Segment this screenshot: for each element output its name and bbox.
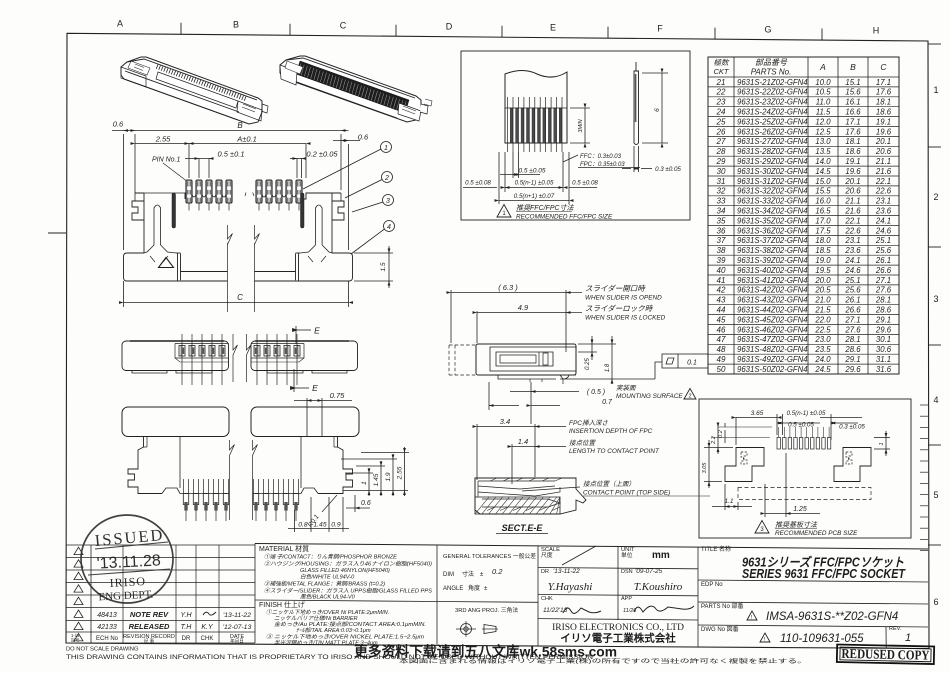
svg-text:'12-07-13: '12-07-13	[223, 624, 252, 631]
revision rows text	[71, 610, 251, 645]
svg-text:25: 25	[716, 117, 726, 126]
side view length dim	[642, 73, 668, 143]
svg-text:1.1: 1.1	[724, 498, 733, 505]
svg-text:110-109631-055: 110-109631-055	[780, 633, 864, 645]
svg-text:31.6: 31.6	[876, 365, 892, 374]
svg-text:15.6: 15.6	[845, 88, 861, 97]
svg-text:17.1: 17.1	[876, 78, 891, 87]
svg-text:29: 29	[716, 157, 726, 166]
flatness callout	[655, 354, 708, 379]
ffc cable drawing	[505, 71, 567, 144]
svg-text:20.6: 20.6	[844, 187, 861, 196]
svg-text:9631S-25Z02-GFN4: 9631S-25Z02-GFN4	[737, 117, 808, 126]
svg-text:17.0: 17.0	[815, 216, 831, 225]
svg-text:36: 36	[717, 226, 726, 235]
dim 0.6 left	[124, 129, 129, 132]
svg-text:28.6: 28.6	[844, 345, 861, 354]
svg-text:SERIES 9631 FFC/FPC SOCKET: SERIES 9631 FFC/FPC SOCKET	[742, 567, 906, 581]
svg-text:11.5: 11.5	[816, 108, 831, 117]
svg-text:'13.11.28: '13.11.28	[96, 552, 161, 572]
svg-text:推奨FFC/FPC寸法: 推奨FFC/FPC寸法	[516, 204, 575, 212]
svg-text:極数: 極数	[714, 58, 730, 67]
housing lower right half	[255, 437, 353, 494]
svg-text:4.9: 4.9	[518, 303, 529, 312]
svg-text:21.1: 21.1	[844, 197, 860, 206]
svg-text:18.5: 18.5	[815, 246, 831, 255]
svg-text:21: 21	[716, 78, 726, 87]
slider side view: body	[449, 344, 576, 384]
svg-text:24.5: 24.5	[814, 365, 831, 374]
svg-text:③ ニッケル下地めっき/OVER NICKEL PLATE:: ③ ニッケル下地めっき/OVER NICKEL PLATE:1.5~2.5μm	[266, 634, 424, 641]
dim 0.2	[712, 423, 770, 443]
svg-text:FINISH 仕上げ: FINISH 仕上げ	[259, 600, 305, 609]
svg-text:48413: 48413	[97, 612, 117, 619]
svg-text:21.6: 21.6	[844, 207, 861, 216]
svg-text:A±0.1: A±0.1	[236, 135, 257, 144]
dim 0.75 view3	[294, 398, 352, 436]
svg-text:( 6.3 ): ( 6.3 )	[498, 283, 518, 292]
svg-text:27: 27	[716, 137, 726, 146]
svg-text:CKT: CKT	[714, 67, 730, 76]
revision triangles	[74, 547, 83, 641]
svg-text:20.5: 20.5	[814, 286, 831, 295]
svg-text:4: 4	[387, 224, 391, 231]
svg-text:24.0: 24.0	[814, 355, 831, 364]
mounting surface note	[489, 382, 579, 424]
svg-text:PARTS No.: PARTS No.	[751, 68, 792, 77]
plan view strip left half	[122, 341, 229, 373]
svg-text:17.6: 17.6	[876, 88, 892, 97]
svg-text:13.0: 13.0	[815, 137, 831, 146]
svg-text:44: 44	[717, 306, 726, 315]
svg-text:9631S-47Z02-GFN4: 9631S-47Z02-GFN4	[737, 335, 808, 344]
svg-text:DR: DR	[182, 636, 191, 642]
svg-text:2.55: 2.55	[155, 135, 171, 144]
svg-text:21.5: 21.5	[814, 306, 831, 315]
svg-text:18.0: 18.0	[815, 236, 831, 245]
svg-text:1: 1	[933, 85, 938, 95]
svg-text:25.6: 25.6	[844, 286, 861, 295]
plan view pin leads left	[179, 334, 225, 385]
break marks view2	[233, 334, 238, 382]
svg-text:FPC：0.35±0.03: FPC：0.35±0.03	[580, 162, 625, 168]
svg-text:0.5(n+1) ±0.07: 0.5(n+1) ±0.07	[514, 193, 555, 200]
material section text	[259, 544, 432, 601]
svg-text:B: B	[233, 20, 239, 30]
svg-text:45: 45	[717, 315, 726, 324]
dim 3.4 insertion depth	[477, 424, 566, 480]
balloon 2	[345, 172, 393, 199]
svg-text:1: 1	[879, 442, 885, 445]
svg-text:41: 41	[717, 276, 726, 285]
svg-text:A: A	[819, 62, 826, 72]
contact point label	[522, 487, 580, 491]
hatched base of sect e-e	[475, 497, 560, 514]
svg-text:26.6: 26.6	[844, 306, 861, 315]
housing lower left half	[128, 437, 228, 494]
svg-text:2.2: 2.2	[711, 436, 717, 445]
svg-text:9631S-34Z02-GFN4: 9631S-34Z02-GFN4	[737, 207, 808, 216]
svg-text:1.45: 1.45	[373, 473, 380, 486]
revision table	[66, 545, 255, 643]
isometric connector view, top-left (top side)	[121, 57, 268, 124]
svg-text:16.1: 16.1	[845, 98, 860, 107]
svg-text:22.5: 22.5	[814, 325, 831, 334]
svg-text:角度: 角度	[468, 584, 480, 592]
dark contact band (right iso)	[296, 61, 409, 113]
svg-text:0.6: 0.6	[358, 133, 369, 142]
svg-text:1: 1	[361, 481, 368, 485]
svg-text:9631S-49Z02-GFN4: 9631S-49Z02-GFN4	[737, 355, 808, 364]
svg-text:21.0: 21.0	[814, 296, 831, 305]
svg-text:9631S-24Z02-GFN4: 9631S-24Z02-GFN4	[737, 108, 808, 117]
svg-text:MOUNTING SURFACE: MOUNTING SURFACE	[616, 393, 683, 400]
svg-text:22: 22	[716, 88, 726, 97]
svg-text:21.1: 21.1	[875, 157, 891, 166]
svg-text:20.0: 20.0	[814, 276, 831, 285]
svg-text:RELEASED: RELEASED	[129, 622, 170, 631]
break line left	[228, 225, 233, 312]
svg-text:9631S-31Z02-GFN4: 9631S-31Z02-GFN4	[737, 177, 808, 186]
dim row 0.5±0.08 left	[463, 152, 597, 192]
svg-text:42133: 42133	[97, 624, 117, 631]
svg-text:25.1: 25.1	[844, 276, 860, 285]
svg-text:ニッケルバリア仕様/Ni BARRIER: ニッケルバリア仕様/Ni BARRIER	[274, 615, 358, 622]
svg-text:31: 31	[717, 177, 726, 186]
svg-text:9631S-32Z02-GFN4: 9631S-32Z02-GFN4	[737, 187, 808, 196]
teeth along top far edge (left iso)	[156, 65, 246, 101]
svg-text:F: F	[657, 23, 663, 33]
svg-text:2: 2	[384, 175, 389, 182]
svg-text:2: 2	[933, 192, 938, 202]
svg-text:0.1: 0.1	[687, 360, 697, 367]
svg-text:19.1: 19.1	[876, 117, 891, 126]
svg-text:APP: APP	[621, 596, 632, 602]
svg-text:12.0: 12.0	[815, 117, 831, 126]
svg-text:FFC：0.3±0.03: FFC：0.3±0.03	[580, 154, 622, 160]
contact peg left	[144, 205, 176, 262]
R0.1 label	[322, 495, 337, 512]
svg-text:13.5: 13.5	[815, 147, 831, 156]
svg-text:20.1: 20.1	[875, 137, 891, 146]
svg-text:22.1: 22.1	[844, 216, 860, 225]
table rows	[716, 78, 892, 374]
svg-text:26: 26	[716, 127, 726, 136]
pins hanging left	[183, 479, 228, 521]
base left foot block	[124, 253, 228, 281]
svg-text:金めっき/Au PLATE:接点部/CONTACT AREA: 金めっき/Au PLATE:接点部/CONTACT AREA:0.1μmMIN.	[274, 621, 426, 628]
dim 0.6 view3	[346, 495, 370, 512]
svg-text:②ハウジング/HOUSING：ガラス入り46ナイロン樹脂(H: ②ハウジング/HOUSING：ガラス入り46ナイロン樹脂(HF5040)	[264, 561, 432, 568]
svg-text:26.6: 26.6	[875, 266, 892, 275]
svg-text:9631S-23Z02-GFN4: 9631S-23Z02-GFN4	[737, 98, 808, 107]
dim 2.55	[135, 144, 189, 179]
svg-text:NOTE REV: NOTE REV	[130, 610, 169, 619]
slider slot dark bar left	[172, 193, 176, 228]
svg-text:D: D	[446, 21, 453, 31]
fold mark left	[48, 232, 66, 234]
svg-text:REV.: REV.	[889, 626, 902, 632]
svg-text:29.6: 29.6	[875, 325, 892, 334]
svg-text:C: C	[237, 293, 243, 302]
svg-text:22.6: 22.6	[875, 187, 892, 196]
svg-text:CHK: CHK	[201, 636, 214, 642]
svg-text:1.4: 1.4	[518, 437, 528, 446]
svg-text:ANGLE: ANGLE	[443, 586, 463, 592]
svg-text:9631S-44Z02-GFN4: 9631S-44Z02-GFN4	[737, 306, 808, 315]
svg-text:35: 35	[717, 216, 726, 225]
contact pins row	[186, 180, 302, 211]
svg-text:49: 49	[717, 355, 726, 364]
svg-text:15.0: 15.0	[815, 177, 831, 186]
svg-text:23.0: 23.0	[814, 335, 831, 344]
svg-text:9631S-37Z02-GFN4: 9631S-37Z02-GFN4	[737, 236, 808, 245]
svg-text:18.6: 18.6	[876, 108, 892, 117]
svg-text:E: E	[314, 326, 320, 336]
svg-text:29.1: 29.1	[875, 315, 891, 324]
slider open/locked labels	[566, 292, 582, 294]
right border mini ruler	[920, 405, 928, 551]
svg-text:28.6: 28.6	[875, 306, 892, 315]
svg-text:GLASS FILLED 46NYLON(HF5040): GLASS FILLED 46NYLON(HF5040)	[300, 568, 390, 574]
dim 0.5±0.05 pitch	[500, 152, 540, 178]
svg-text:更多资料下载请到五八文库wk.58sms.com: 更多资料下载请到五八文库wk.58sms.com	[354, 644, 617, 660]
SECT E-E body	[475, 478, 586, 514]
title / parts / dwg	[701, 545, 911, 645]
dim 1 right	[874, 431, 890, 456]
svg-text:28.1: 28.1	[875, 296, 891, 305]
svg-text:DSN: DSN	[621, 569, 633, 575]
svg-text:1.5: 1.5	[380, 262, 387, 271]
svg-text:11.0: 11.0	[816, 98, 831, 107]
svg-text:G: G	[764, 24, 771, 34]
svg-text:24: 24	[716, 108, 726, 117]
balloon 4	[351, 221, 395, 255]
svg-text:47: 47	[717, 335, 726, 344]
svg-text:1.45: 1.45	[313, 522, 326, 529]
svg-text:PARTS No 部番: PARTS No 部番	[701, 602, 743, 610]
svg-text:9631S-28Z02-GFN4: 9631S-28Z02-GFN4	[737, 147, 808, 156]
svg-text:'13-11-22: '13-11-22	[553, 568, 580, 575]
recommended ffc size note	[497, 205, 511, 218]
svg-text:LENGTH TO CONTACT POINT: LENGTH TO CONTACT POINT	[569, 448, 660, 455]
svg-text:20.1: 20.1	[844, 177, 860, 186]
slider slot dark bar right	[301, 193, 305, 228]
ffc conductors hatched	[505, 97, 567, 152]
svg-text:黒色/BLACK UL94-V0: 黒色/BLACK UL94-V0	[300, 594, 356, 601]
dim 0.5±0.1	[185, 159, 213, 179]
svg-text:23.1: 23.1	[875, 197, 891, 206]
finish section text	[259, 600, 426, 647]
svg-text:3MIN: 3MIN	[578, 119, 584, 132]
svg-text:9631S-27Z02-GFN4: 9631S-27Z02-GFN4	[737, 137, 808, 146]
svg-text:6: 6	[933, 597, 938, 607]
svg-text:'13-11-22: '13-11-22	[223, 612, 251, 619]
svg-text:GENERAL TOLERANCES 一般公差: GENERAL TOLERANCES 一般公差	[443, 552, 536, 560]
svg-text:16.0: 16.0	[815, 197, 831, 206]
vertical dims left 3.05/2.2	[704, 425, 772, 488]
svg-text:27.6: 27.6	[875, 286, 892, 295]
svg-text:22.1: 22.1	[875, 177, 891, 186]
dim 0.5(n+1)±0.07	[499, 152, 569, 204]
dim 0.6 right	[333, 140, 360, 142]
housing top edge left	[184, 193, 186, 199]
svg-text:DR: DR	[541, 569, 549, 575]
svg-text:22.6: 22.6	[844, 226, 861, 235]
svg-text:K.Y: K.Y	[201, 624, 214, 631]
ISSUED stamp circle	[81, 515, 173, 603]
svg-text:C: C	[880, 62, 887, 72]
svg-text:9631S-38Z02-GFN4: 9631S-38Z02-GFN4	[737, 246, 808, 255]
parts table	[708, 57, 899, 374]
svg-text:0.6: 0.6	[361, 500, 371, 507]
svg-text:0.3 ±0.05: 0.3 ±0.05	[839, 424, 865, 431]
ffc side view thin bar	[634, 62, 639, 145]
dim 1.1	[712, 484, 752, 510]
svg-text:B: B	[237, 121, 243, 130]
svg-text:TITLE 名称: TITLE 名称	[701, 545, 731, 553]
svg-text:E: E	[312, 383, 318, 393]
svg-text:33: 33	[717, 197, 726, 206]
frame column ticks	[181, 23, 941, 545]
svg-text:28: 28	[716, 147, 726, 156]
svg-text:32: 32	[717, 187, 726, 196]
svg-text:E: E	[550, 22, 556, 32]
title block structure lines	[255, 544, 928, 649]
dim A±0.1	[189, 144, 306, 179]
MIN dim	[570, 108, 590, 143]
svg-text:REDUSED COPY: REDUSED COPY	[841, 646, 929, 663]
svg-text:0.5 ±0.08: 0.5 ±0.08	[465, 180, 491, 187]
svg-text:9631S-22Z02-GFN4: 9631S-22Z02-GFN4	[737, 88, 808, 97]
svg-text:30: 30	[717, 167, 726, 176]
svg-text:9631S-43Z02-GFN4: 9631S-43Z02-GFN4	[737, 296, 808, 305]
svg-text:3.65: 3.65	[751, 410, 764, 417]
svg-text:34: 34	[717, 207, 726, 216]
ffc/fpc recommendation box	[461, 51, 690, 220]
svg-text:24.1: 24.1	[875, 216, 891, 225]
svg-text:19.1: 19.1	[845, 157, 860, 166]
third angle projection symbol	[456, 621, 498, 637]
svg-text:2.55: 2.55	[397, 466, 404, 480]
svg-text:4: 4	[933, 395, 938, 405]
dims (6.3) and 4.9	[451, 290, 566, 352]
svg-text:19.6: 19.6	[876, 127, 892, 136]
svg-text:25.6: 25.6	[875, 246, 892, 255]
svg-text:23.1: 23.1	[844, 236, 860, 245]
svg-text:RECOMMENDED PCB SIZE: RECOMMENDED PCB SIZE	[775, 530, 858, 537]
dims right side view3	[341, 447, 409, 496]
general tolerances box	[443, 552, 536, 614]
svg-text:17.1: 17.1	[845, 117, 860, 126]
svg-text:H: H	[873, 25, 880, 35]
svg-text:記 事: 記 事	[144, 638, 155, 645]
svg-text:24.6: 24.6	[875, 226, 892, 235]
frame column letters	[117, 19, 939, 608]
svg-text:白色/WHITE UL94V-0: 白色/WHITE UL94V-0	[300, 574, 355, 581]
svg-text:1.25: 1.25	[793, 506, 807, 513]
svg-text:T.Koushiro: T.Koushiro	[634, 581, 683, 593]
left land pattern	[725, 448, 764, 482]
base right foot block	[255, 253, 353, 281]
svg-text:0.25: 0.25	[585, 358, 591, 370]
right land pattern	[834, 448, 871, 482]
svg-text:30.6: 30.6	[876, 345, 892, 354]
svg-text:17.5: 17.5	[815, 226, 831, 235]
svg-text:27.1: 27.1	[875, 276, 891, 285]
svg-text:43: 43	[717, 296, 726, 305]
svg-text:21.6: 21.6	[875, 167, 892, 176]
svg-text:1: 1	[384, 145, 388, 152]
pcb pads row	[777, 427, 831, 449]
svg-text:1.8: 1.8	[605, 363, 611, 372]
svg-text:9631S-42Z02-GFN4: 9631S-42Z02-GFN4	[737, 286, 808, 295]
svg-text:9631S-30Z02-GFN4: 9631S-30Z02-GFN4	[737, 167, 808, 176]
dim 1.5 right	[354, 246, 393, 288]
svg-text:接点位置: 接点位置	[569, 439, 597, 447]
svg-text:0.2: 0.2	[492, 567, 503, 576]
svg-text:RECOMMENDED FFC/FPC SIZE: RECOMMENDED FFC/FPC SIZE	[516, 214, 613, 221]
svg-text:0.6: 0.6	[113, 120, 124, 129]
svg-text:39: 39	[717, 256, 726, 265]
svg-text:18.1: 18.1	[876, 98, 891, 107]
svg-text:DIM: DIM	[443, 572, 454, 578]
svg-text:INSERTION DEPTH OF FPC: INSERTION DEPTH OF FPC	[569, 428, 653, 435]
metal flange left fork	[132, 201, 144, 220]
svg-text:( 0.5 ): ( 0.5 )	[587, 389, 605, 396]
svg-text:T.H: T.H	[181, 624, 193, 631]
svg-text:10.0: 10.0	[815, 78, 831, 87]
svg-text:年月日: 年月日	[230, 638, 244, 645]
svg-text:WHEN SLIDER IS OPEND: WHEN SLIDER IS OPEND	[585, 295, 662, 302]
svg-text:WHEN SLIDER IS LOCKED: WHEN SLIDER IS LOCKED	[585, 315, 666, 322]
svg-text:9631S-39Z02-GFN4: 9631S-39Z02-GFN4	[737, 256, 808, 265]
svg-text:19.5: 19.5	[815, 266, 831, 275]
svg-text:10.5: 10.5	[815, 88, 831, 97]
svg-text:9631S-40Z02-GFN4: 9631S-40Z02-GFN4	[737, 266, 808, 275]
break lines view3	[230, 440, 235, 520]
svg-text:B: B	[850, 62, 856, 72]
svg-text:Y.H: Y.H	[180, 612, 192, 619]
svg-text:記号: 記号	[71, 637, 79, 644]
svg-text:スライダーロック時: スライダーロック時	[585, 304, 654, 313]
svg-text:2: 2	[688, 394, 691, 400]
svg-text:40: 40	[717, 266, 726, 275]
svg-text:3.05: 3.05	[702, 462, 708, 474]
svg-text:46: 46	[717, 325, 726, 334]
svg-text:12.5: 12.5	[815, 127, 831, 136]
svg-text:推奨基板寸法: 推奨基板寸法	[775, 521, 818, 529]
contact peg right	[300, 205, 332, 262]
svg-text:38: 38	[717, 246, 726, 255]
svg-text:5: 5	[933, 490, 938, 500]
svg-text:尺度: 尺度	[541, 551, 553, 559]
dim B	[112, 131, 349, 251]
svg-text:9631S-50Z02-GFN4: 9631S-50Z02-GFN4	[737, 365, 808, 374]
svg-text:14.5: 14.5	[815, 167, 831, 176]
svg-text:実装面: 実装面	[616, 384, 637, 392]
svg-text:14.0: 14.0	[815, 157, 831, 166]
svg-text:単位: 単位	[621, 551, 633, 559]
svg-text:19.0: 19.0	[815, 256, 831, 265]
svg-text:mm: mm	[652, 550, 670, 561]
svg-text:26.1: 26.1	[875, 256, 891, 265]
svg-text:29.6: 29.6	[844, 365, 861, 374]
svg-text:DWG No 図番: DWG No 図番	[701, 626, 739, 633]
svg-text:20.6: 20.6	[875, 147, 892, 156]
slider block left	[122, 407, 359, 437]
svg-text:23.6: 23.6	[844, 246, 861, 255]
